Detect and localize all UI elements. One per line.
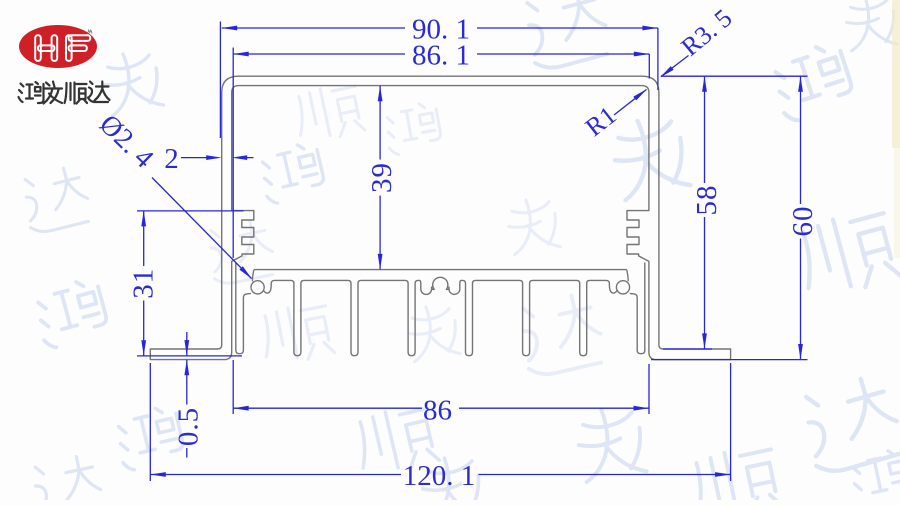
leader dia 2.4 arrowhead xyxy=(239,266,252,279)
web bottom and fins xyxy=(264,277,617,355)
svg-text:120. 1: 120. 1 xyxy=(403,460,476,492)
dim 39 arrowheads xyxy=(378,86,383,102)
dim 60 lines xyxy=(651,76,808,359)
svg-text:39: 39 xyxy=(366,162,398,193)
left neck xyxy=(252,270,253,282)
dim 2 arrowheads xyxy=(206,155,222,160)
svg-text:86: 86 xyxy=(423,394,452,426)
svg-text:31: 31 xyxy=(128,268,160,299)
right screw hole circle xyxy=(616,281,629,294)
logo chinese text hong fa shun da xyxy=(19,82,110,104)
leader R3.5 arrowhead xyxy=(660,66,674,77)
dim 90.1 arrowheads xyxy=(222,26,238,31)
leader R1 arrowhead xyxy=(633,89,647,100)
svg-text:R3. 5: R3. 5 xyxy=(676,3,738,61)
dim 60 arrowheads xyxy=(798,76,803,92)
svg-text:Ø2. 4: Ø2. 4 xyxy=(93,109,159,175)
dim 86 lines xyxy=(233,360,649,414)
svg-text:86. 1: 86. 1 xyxy=(412,40,470,72)
dim 31 arrowheads xyxy=(141,211,146,227)
svg-text:0.5: 0.5 xyxy=(173,407,205,446)
leader dia 2.4 line xyxy=(152,178,252,279)
dim 120.1 lines xyxy=(150,363,730,481)
dim 58 arrowheads xyxy=(702,76,707,92)
leader R3.5 line xyxy=(661,56,689,77)
dim 0.5 arrowheads xyxy=(184,340,189,356)
web top line xyxy=(254,269,627,271)
dim 86.1 arrowheads xyxy=(233,52,249,57)
svg-text:60: 60 xyxy=(787,206,819,237)
dim 86.1 lines xyxy=(233,48,649,259)
dim 31 lines xyxy=(137,211,244,356)
right neck xyxy=(627,270,628,282)
dim 90.1 lines xyxy=(220,22,658,139)
dim 0.5 lines xyxy=(186,332,188,458)
dim 58 lines xyxy=(661,76,808,349)
logo ellipse HF xyxy=(19,25,97,68)
left screw boss fin xyxy=(236,263,251,354)
right screw boss fin xyxy=(630,263,645,354)
svg-text:2: 2 xyxy=(164,143,179,175)
dim 120.1 arrowheads xyxy=(150,472,166,477)
dim 39 line xyxy=(379,86,381,270)
heatsink profile outer outline with combs xyxy=(150,76,730,359)
dim 2 lines xyxy=(181,157,254,159)
dim 86 arrowheads xyxy=(233,406,249,411)
left screw hole circle xyxy=(251,281,264,294)
svg-text:R1: R1 xyxy=(580,101,622,143)
logo trademark mark xyxy=(88,30,93,33)
leader R1 line xyxy=(614,90,647,116)
svg-text:58: 58 xyxy=(691,185,723,216)
pale yellow edge streak xyxy=(892,0,900,148)
